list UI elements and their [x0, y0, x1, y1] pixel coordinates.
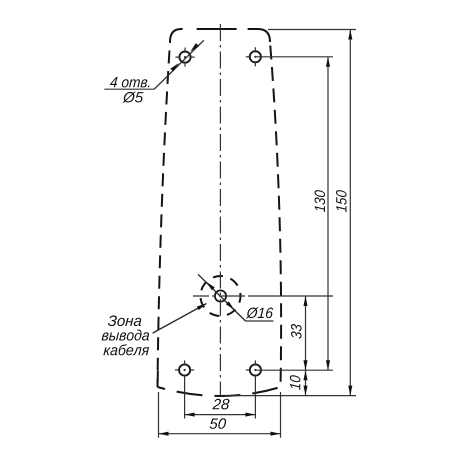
- plate outline right side (dashed): [270, 42, 281, 387]
- dimension 130: [315, 57, 331, 370]
- label Ø5: [122, 92, 143, 103]
- leader Ø5 (4 holes): [104, 40, 204, 89]
- extension line top edge: [268, 29, 356, 31]
- dimension 50: [159, 418, 281, 435]
- hole top-right crosshairs: [246, 47, 256, 66]
- extension line bottom holes: [255, 369, 333, 371]
- extension line top holes: [255, 56, 333, 58]
- dimension 28: [185, 399, 256, 417]
- hole bottom-left Ø5: [179, 364, 190, 375]
- plate vertical centerline (dash-dot): [219, 24, 221, 395]
- hole top-right Ø5: [250, 51, 261, 62]
- label 4 otv: [110, 77, 150, 87]
- hole bottom-left crosshairs: [175, 360, 194, 418]
- central hole horizontal centerline / extension for 33 dim: [193, 295, 249, 297]
- leader Ø16: [198, 274, 274, 321]
- dimension 150: [336, 30, 352, 396]
- hole bottom-right Ø5: [250, 364, 261, 375]
- cable zone dashed circle Ø16: [201, 276, 241, 316]
- plate outline left side bottom hook: [157, 371, 159, 384]
- leader cable zone: [153, 302, 208, 333]
- label Ø16: [246, 307, 274, 318]
- dimension 33: [291, 296, 308, 370]
- central hole: [215, 290, 226, 301]
- plate outline top edge (dashed): [170, 29, 270, 42]
- label cable zone text: [101, 315, 149, 355]
- hole bottom-right crosshairs: [246, 360, 256, 418]
- hole top-left Ø5: [179, 52, 190, 63]
- extension line bottom edge: [225, 395, 356, 397]
- plate outline left side (dashed): [158, 42, 171, 387]
- dimension 10: [290, 370, 308, 395]
- extension line 50 left: [158, 392, 160, 438]
- extension line 50 right: [280, 392, 282, 438]
- plate outline bottom arc (dashed): [158, 387, 281, 396]
- hole top-left crosshairs: [175, 48, 194, 67]
